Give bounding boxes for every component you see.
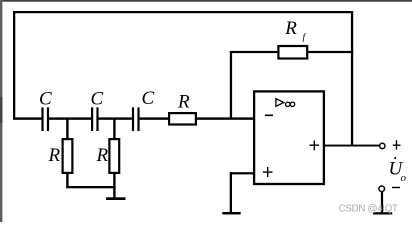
svg-text:R: R	[284, 18, 297, 39]
svg-text:o: o	[401, 172, 407, 184]
svg-text:C: C	[91, 89, 104, 110]
svg-text:R: R	[48, 145, 61, 166]
svg-text:CSDN @4IQT: CSDN @4IQT	[339, 203, 398, 214]
svg-text:C: C	[39, 89, 52, 110]
svg-text:R: R	[177, 92, 190, 113]
svg-text:C: C	[142, 88, 155, 109]
svg-text:R: R	[96, 145, 109, 166]
